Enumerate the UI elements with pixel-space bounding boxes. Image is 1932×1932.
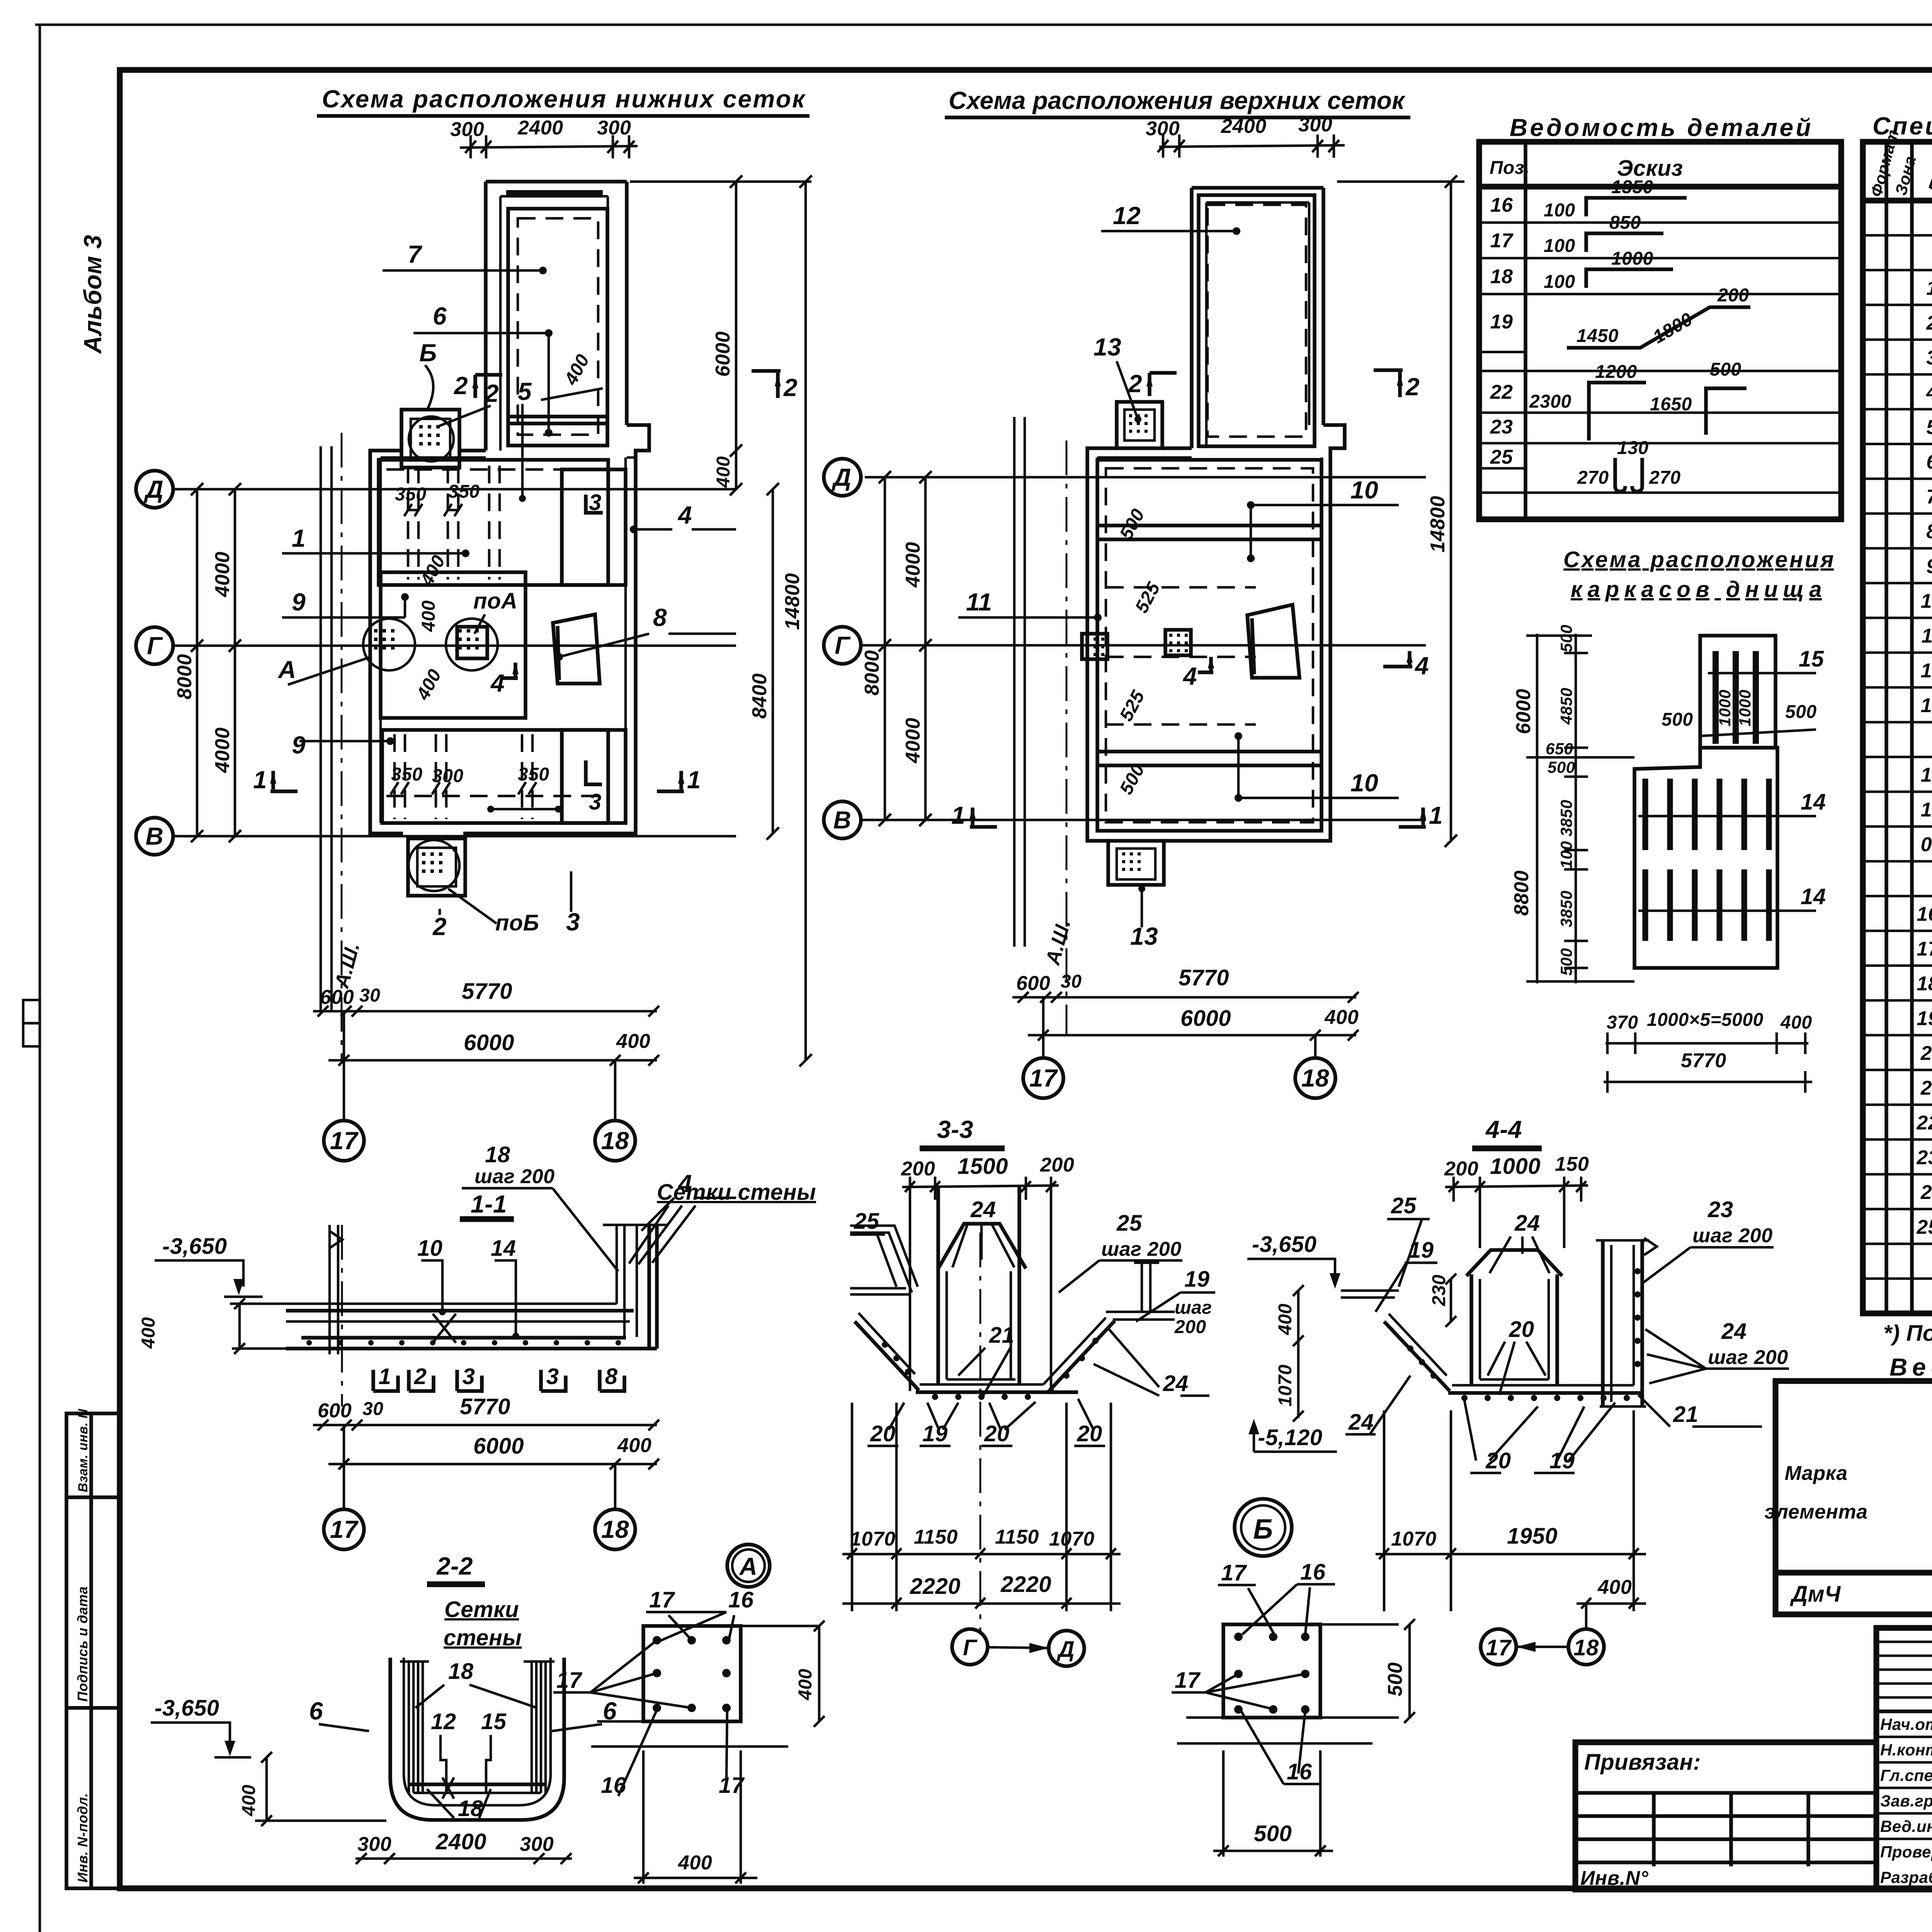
svg-text:2: 2 [783, 374, 798, 401]
box podpis data [66, 1706, 120, 1710]
svg-text:12: 12 [431, 1709, 456, 1734]
svg-text:400: 400 [1597, 1576, 1632, 1599]
node A dim 400 right [818, 1626, 821, 1721]
svg-text:4000: 4000 [211, 727, 234, 773]
svg-text:300: 300 [357, 1833, 391, 1855]
svg-text:6000: 6000 [712, 331, 734, 377]
section mark 4 [502, 663, 518, 680]
svg-text:22*: 22* [1916, 1112, 1932, 1134]
svg-text:100: 100 [1557, 841, 1575, 869]
carcass KP6 bars lower row [1643, 869, 1648, 941]
plan1 body outer walls [370, 425, 649, 833]
svg-text:25: 25 [1391, 1193, 1417, 1218]
details header line [1479, 184, 1841, 190]
section mark 1 left [270, 771, 298, 791]
svg-text:25: 25 [1116, 1211, 1142, 1236]
svg-text:8000: 8000 [173, 654, 196, 699]
axis lines [173, 488, 736, 491]
svg-text:8: 8 [605, 1364, 618, 1389]
outer border top [35, 24, 1932, 26]
svg-text:12: 12 [1113, 202, 1141, 230]
sec33 dims 2220 [842, 1602, 1121, 1605]
embed plates [1082, 634, 1107, 659]
svg-text:23: 23 [1708, 1197, 1733, 1222]
svg-text:2: 2 [414, 1364, 427, 1389]
svg-text:1070: 1070 [1049, 1528, 1095, 1550]
svg-text:400: 400 [239, 1784, 259, 1816]
sec44 axis circles 17 18 [1481, 1629, 1516, 1665]
left margin stamp column [66, 1413, 120, 1888]
carcass KP7 bars [1713, 651, 1719, 744]
sec22 top hooks [400, 1660, 554, 1663]
svg-text:6000: 6000 [473, 1434, 524, 1459]
svg-text:Разраб: Разраб [1880, 1868, 1932, 1886]
svg-text:500: 500 [1785, 702, 1817, 722]
svg-text:200: 200 [1717, 285, 1749, 306]
svg-text:Сетки: Сетки [444, 1597, 519, 1622]
svg-text:А: А [277, 656, 296, 684]
svg-text:1000×5=5000: 1000×5=5000 [1647, 1010, 1764, 1030]
svg-text:Схема расположения нижних сето: Схема расположения нижних сеток [322, 85, 806, 113]
details list table [1479, 114, 1841, 519]
svg-text:24: 24 [1721, 1319, 1747, 1344]
plan upper meshes [824, 87, 1464, 1098]
svg-text:2220: 2220 [910, 1574, 961, 1599]
svg-text:4: 4 [1182, 662, 1197, 690]
left dim vertical 4000s [234, 489, 236, 836]
svg-text:Схема расположения: Схема расположения [1563, 547, 1834, 572]
leader dots lower [491, 808, 558, 811]
sec44 dim 400 1070 left [1297, 1291, 1300, 1418]
section mark 2 top [475, 375, 502, 398]
node A slab lines [741, 1625, 819, 1628]
sec33 central box [936, 1186, 940, 1385]
svg-text:150: 150 [1555, 1153, 1589, 1175]
sec33 left slab [850, 1226, 918, 1287]
svg-text:500: 500 [1710, 359, 1742, 380]
svg-text:525: 525 [1131, 579, 1164, 617]
svg-text:Зав.гр.: Зав.гр. [1880, 1792, 1932, 1810]
details table outer [1479, 142, 1841, 519]
sec44 right wall [1601, 1240, 1605, 1406]
svg-text:17: 17 [1486, 1635, 1512, 1660]
svg-text:500: 500 [1254, 1821, 1292, 1846]
svg-text:23: 23 [1490, 416, 1513, 438]
svg-text:2: 2 [1128, 370, 1142, 398]
svg-text:Вед.инж: Вед.инж [1880, 1817, 1932, 1835]
svg-text:20: 20 [1077, 1421, 1102, 1446]
section mark 1 plan2 [970, 808, 997, 827]
specification table [1863, 112, 1932, 1313]
svg-text:Нач.отд: Нач.отд [1880, 1715, 1932, 1733]
dashed verticals top band [407, 466, 410, 580]
plan2 axis circles 17 18 [1042, 997, 1045, 1059]
svg-text:525: 525 [1116, 687, 1149, 725]
svg-text:1150: 1150 [995, 1526, 1039, 1548]
svg-text:20: 20 [1509, 1317, 1534, 1342]
svg-text:18: 18 [601, 1127, 629, 1155]
svg-text:1950: 1950 [1507, 1524, 1558, 1549]
svg-text:18: 18 [448, 1659, 474, 1684]
svg-text:1000: 1000 [1736, 690, 1754, 726]
svg-text:3850: 3850 [1557, 891, 1575, 927]
svg-text:370: 370 [1607, 1012, 1638, 1033]
sec22 dim 400 [265, 1757, 268, 1821]
svg-text:18: 18 [1573, 1635, 1599, 1660]
mesh 7 top bar [506, 190, 603, 196]
svg-text:25: 25 [1490, 446, 1513, 468]
svg-text:Схема расположения верхних сет: Схема расположения верхних сеток [949, 87, 1406, 114]
svg-text:17: 17 [1175, 1668, 1201, 1693]
svg-text:Поз.: Поз. [1924, 148, 1932, 197]
plan2 tall wall part [1190, 188, 1194, 448]
svg-text:4000: 4000 [902, 542, 924, 588]
svg-text:24: 24 [1514, 1211, 1540, 1236]
svg-text:шаг: шаг [1175, 1298, 1212, 1318]
details row lines [1479, 221, 1841, 224]
svg-text:500: 500 [1557, 624, 1575, 652]
svg-text:5770: 5770 [1179, 965, 1229, 990]
svg-text:1450: 1450 [1577, 326, 1619, 346]
svg-text:5770: 5770 [460, 1394, 510, 1419]
svg-text:200: 200 [1174, 1317, 1206, 1337]
svg-text:8800: 8800 [1510, 870, 1533, 916]
svg-text:2: 2 [485, 379, 499, 407]
svg-text:400: 400 [560, 351, 594, 389]
window flag plan2 [1247, 605, 1299, 678]
node B square [1223, 1624, 1320, 1718]
svg-text:Инв. N-подл.: Инв. N-подл. [75, 1793, 90, 1883]
node B dots [1234, 1633, 1243, 1641]
svg-text:24: 24 [1163, 1371, 1189, 1396]
svg-text:3-3: 3-3 [937, 1116, 973, 1143]
svg-text:400: 400 [1275, 1303, 1296, 1335]
svg-text:200: 200 [1040, 1154, 1074, 1176]
svg-text:100: 100 [1544, 200, 1575, 221]
dim 400 sec11 [238, 1304, 241, 1350]
svg-text:3850: 3850 [1557, 800, 1575, 837]
svg-text:270: 270 [1649, 468, 1681, 488]
svg-text:1070: 1070 [850, 1528, 896, 1550]
svg-text:В: В [833, 806, 852, 834]
svg-text:1800: 1800 [1650, 309, 1696, 347]
svg-text:9: 9 [292, 731, 306, 759]
svg-text:400: 400 [617, 1434, 651, 1457]
svg-text:2400: 2400 [1221, 115, 1267, 138]
svg-text:30: 30 [1061, 971, 1082, 992]
sec44 left slab [1341, 1289, 1399, 1292]
svg-text:6: 6 [1926, 451, 1932, 473]
svg-text:20: 20 [984, 1421, 1010, 1446]
svg-text:2220: 2220 [1000, 1572, 1051, 1597]
title block outer [1876, 1628, 1932, 1889]
plan2 left dims [884, 477, 886, 820]
svg-text:1: 1 [253, 766, 267, 794]
plan2 break lines [1013, 417, 1016, 947]
svg-text:4-4: 4-4 [1485, 1116, 1522, 1143]
svg-text:Г: Г [963, 1635, 978, 1660]
svg-text:6: 6 [433, 302, 447, 330]
svg-text:18: 18 [485, 1142, 510, 1167]
svg-text:15: 15 [1921, 799, 1932, 821]
svg-text:1: 1 [1926, 277, 1932, 299]
svg-text:16: 16 [1490, 194, 1513, 216]
carcass main block outline [1634, 748, 1777, 968]
svg-text:6000: 6000 [1512, 689, 1535, 734]
svg-text:2: 2 [432, 913, 447, 940]
sec44 bottom plates [1448, 1391, 1642, 1395]
svg-text:3: 3 [566, 908, 580, 936]
svg-text:1-1: 1-1 [471, 1190, 507, 1218]
svg-text:21: 21 [989, 1323, 1015, 1348]
carcass KP6 bars upper row [1643, 779, 1648, 850]
svg-text:350: 350 [518, 764, 549, 785]
bottom dim 370 1000x5 400 [1605, 1042, 1808, 1045]
svg-text:11: 11 [1922, 625, 1932, 647]
plan1 bottom dims [313, 1010, 657, 1013]
svg-text:2: 2 [454, 372, 468, 400]
dashed horizontals [1106, 586, 1256, 589]
svg-text:15: 15 [481, 1709, 507, 1734]
svg-text:1000: 1000 [1716, 690, 1734, 726]
node B dim 500 bottom [1213, 1850, 1333, 1852]
svg-text:1: 1 [951, 801, 965, 829]
plan2 body walls [1087, 425, 1345, 841]
section 1-1 and 2-2 and node A [138, 1142, 825, 1884]
svg-text:поА: поА [473, 588, 517, 614]
section mark 2 right [752, 371, 781, 398]
svg-text:9: 9 [292, 588, 306, 616]
svg-text:Инв.N°: Инв.N° [1580, 1867, 1649, 1889]
svg-text:400: 400 [795, 1668, 816, 1701]
binding mark boxes [23, 1000, 40, 1023]
svg-text:7: 7 [408, 240, 423, 268]
box vzam inv [66, 1495, 120, 1499]
section mark 4 plan2 [1198, 657, 1213, 674]
svg-text:-3,650: -3,650 [155, 1696, 219, 1721]
plan1 tall wall part [484, 182, 488, 451]
svg-text:шаг 200: шаг 200 [474, 1165, 555, 1188]
sec44 central box [1469, 1274, 1473, 1385]
axis circles 17 18 [343, 1011, 345, 1121]
svg-text:19: 19 [1184, 1267, 1210, 1292]
svg-text:3: 3 [589, 490, 602, 515]
sec33 riser pair [1141, 1263, 1143, 1312]
svg-text:130: 130 [1617, 438, 1649, 458]
svg-text:каркасов днища: каркасов днища [1571, 577, 1822, 602]
svg-text:30: 30 [359, 985, 380, 1006]
spec table outer [1863, 142, 1932, 1313]
svg-text:25: 25 [854, 1209, 879, 1234]
svg-text:1350: 1350 [1611, 177, 1653, 197]
svg-text:11: 11 [966, 588, 992, 616]
sec44 dots [1407, 1345, 1413, 1352]
sec22 wall meshes [408, 1662, 410, 1793]
svg-text:25*: 25* [1916, 1216, 1932, 1238]
svg-text:600: 600 [1016, 972, 1050, 995]
svg-text:Д: Д [1056, 1637, 1075, 1662]
svg-text:14: 14 [1801, 789, 1826, 815]
svg-text:-5,120: -5,120 [1258, 1425, 1322, 1450]
svg-text:Подпись и дата: Подпись и дата [75, 1586, 90, 1702]
svg-text:300: 300 [450, 118, 484, 141]
plan2 interior mesh rect [1097, 460, 1321, 831]
svg-text:Ведомость деталей: Ведомость деталей [1510, 114, 1811, 141]
svg-text:8400: 8400 [748, 673, 771, 719]
bottom dim 5770 [1604, 1081, 1812, 1083]
node B dim 500 right [1408, 1624, 1411, 1718]
section flag 3 lower [586, 760, 602, 784]
node A dim 400 bottom [634, 1877, 757, 1879]
svg-text:400: 400 [412, 666, 446, 704]
svg-text:12: 12 [1921, 660, 1932, 682]
node circles A [363, 619, 415, 670]
section 3-3, 4-4, node B [842, 1116, 1789, 1857]
svg-text:7: 7 [1926, 486, 1932, 508]
svg-text:17: 17 [330, 1515, 359, 1543]
svg-text:-3,650: -3,650 [162, 1234, 227, 1259]
horizontal thick pairs [1097, 524, 1321, 527]
svg-text:стены: стены [444, 1625, 522, 1650]
svg-text:400: 400 [138, 1317, 159, 1349]
svg-text:Взам. инв. N: Взам. инв. N [76, 1408, 90, 1492]
sec44 cap [1466, 1250, 1562, 1276]
svg-text:3: 3 [589, 789, 602, 815]
svg-text:1: 1 [292, 524, 306, 552]
svg-text:100: 100 [1544, 236, 1575, 256]
svg-text:17*: 17* [1917, 938, 1932, 960]
svg-text:350: 350 [448, 481, 480, 502]
svg-text:2-2: 2-2 [436, 1552, 473, 1580]
svg-text:1070: 1070 [1275, 1364, 1296, 1406]
svg-text:16: 16 [1300, 1560, 1326, 1585]
svg-text:элемента: элемента [1764, 1501, 1867, 1523]
svg-text:17: 17 [330, 1127, 359, 1155]
svg-text:500: 500 [1548, 758, 1575, 776]
node 13 bottom [1108, 841, 1164, 885]
svg-text:4: 4 [677, 501, 692, 529]
title block left rows [1876, 1641, 1932, 1643]
section mark 1 right [657, 771, 684, 791]
svg-text:Г: Г [147, 632, 163, 660]
svg-text:А.Ш.: А.Ш. [330, 940, 364, 991]
svg-text:14800: 14800 [781, 573, 804, 630]
svg-text:17: 17 [1490, 230, 1514, 252]
svg-text:В: В [146, 822, 164, 850]
section mark 2 plan2 [1150, 373, 1177, 396]
sec33 dims 1070 1150 [842, 1553, 1121, 1556]
sec33 right stub [1106, 1311, 1175, 1313]
svg-text:3: 3 [546, 1364, 559, 1389]
svg-text:18*: 18* [1917, 973, 1932, 995]
window flag [553, 614, 600, 684]
svg-text:Ведомость расхода стали на: Ведомость расхода стали на элемент, кг [1889, 1353, 1932, 1381]
plan2 bottom dims [1012, 996, 1356, 999]
mesh C63 middle [381, 572, 526, 718]
svg-text:шаг 200: шаг 200 [1101, 1238, 1182, 1260]
svg-text:10: 10 [1350, 769, 1378, 797]
mesh 12 [1199, 195, 1315, 446]
sec11 bottom mesh with dots [301, 1336, 626, 1340]
sec11 axis circles [343, 1425, 345, 1509]
svg-text:3: 3 [1926, 347, 1932, 369]
node A dots [653, 1636, 661, 1645]
sec33 axis circles G D [952, 1629, 988, 1665]
svg-text:1: 1 [379, 1364, 391, 1389]
svg-text:6: 6 [309, 1697, 323, 1725]
svg-text:Спецификация к схеме расположе: Спецификация к схеме расположения сеток … [1872, 112, 1932, 140]
svg-text:400: 400 [1324, 1006, 1359, 1029]
mesh4 right top [562, 469, 626, 585]
svg-text:19: 19 [922, 1421, 948, 1446]
svg-text:500: 500 [1384, 1662, 1406, 1696]
svg-text:А: А [739, 1553, 758, 1580]
svg-text:2: 2 [1926, 312, 1932, 334]
mesh 7 rect [508, 209, 607, 446]
svg-text:8000: 8000 [861, 650, 883, 696]
sec11 cross mark [433, 1314, 456, 1343]
svg-text:600: 600 [320, 986, 354, 1009]
svg-text:Зона: Зона [1891, 154, 1919, 197]
svg-text:650: 650 [1546, 740, 1573, 758]
sec33 axis center [980, 1233, 981, 1634]
axis lines plan2 [865, 476, 1426, 479]
plan lower meshes [136, 85, 812, 1161]
svg-text:5770: 5770 [462, 979, 512, 1004]
svg-text:200: 200 [901, 1158, 935, 1180]
sec22 bottom meshes [410, 1782, 545, 1786]
svg-text:23*: 23* [1916, 1146, 1932, 1169]
svg-text:1000: 1000 [1490, 1154, 1541, 1179]
sec44 left slope [1384, 1321, 1450, 1391]
bottom carcass scheme [1510, 547, 1834, 1093]
sec22 bottom dims [355, 1857, 572, 1860]
mesh1 top band [379, 460, 608, 585]
svg-text:Поз.: Поз. [1490, 158, 1530, 178]
right dim verticals [735, 182, 738, 489]
svg-text:1200: 1200 [1595, 362, 1637, 382]
svg-text:Г: Г [835, 631, 851, 659]
svg-text:6000: 6000 [1180, 1006, 1231, 1031]
svg-text:5: 5 [1926, 416, 1932, 439]
svg-text:600: 600 [318, 1400, 352, 1422]
sec33 right slope [1048, 1321, 1115, 1392]
svg-text:9: 9 [1926, 555, 1932, 578]
svg-text:Д: Д [144, 475, 164, 503]
svg-text:24: 24 [1920, 1181, 1932, 1204]
svg-text:300: 300 [432, 766, 464, 786]
details pos column line [1524, 142, 1527, 519]
svg-text:200: 200 [1444, 1158, 1478, 1180]
svg-text:21: 21 [1673, 1402, 1699, 1427]
svg-text:-3,650: -3,650 [1252, 1232, 1316, 1257]
svg-text:14: 14 [491, 1236, 516, 1261]
svg-text:6000: 6000 [464, 1030, 514, 1055]
svg-text:1: 1 [687, 766, 701, 794]
svg-text:4000: 4000 [211, 551, 234, 597]
svg-text:Н.контр.: Н.контр. [1880, 1741, 1932, 1759]
svg-text:1650: 1650 [1650, 394, 1692, 415]
svg-text:400: 400 [678, 1852, 712, 1874]
svg-text:18: 18 [1301, 1064, 1329, 1092]
sec33 funnel left slope [855, 1321, 919, 1390]
svg-text:13: 13 [1921, 694, 1932, 717]
svg-text:400: 400 [713, 456, 734, 488]
svg-text:10: 10 [1350, 476, 1378, 504]
svg-text:2300: 2300 [1529, 391, 1571, 412]
svg-text:1000: 1000 [1611, 248, 1653, 269]
privyazan box [1575, 1742, 1876, 1889]
